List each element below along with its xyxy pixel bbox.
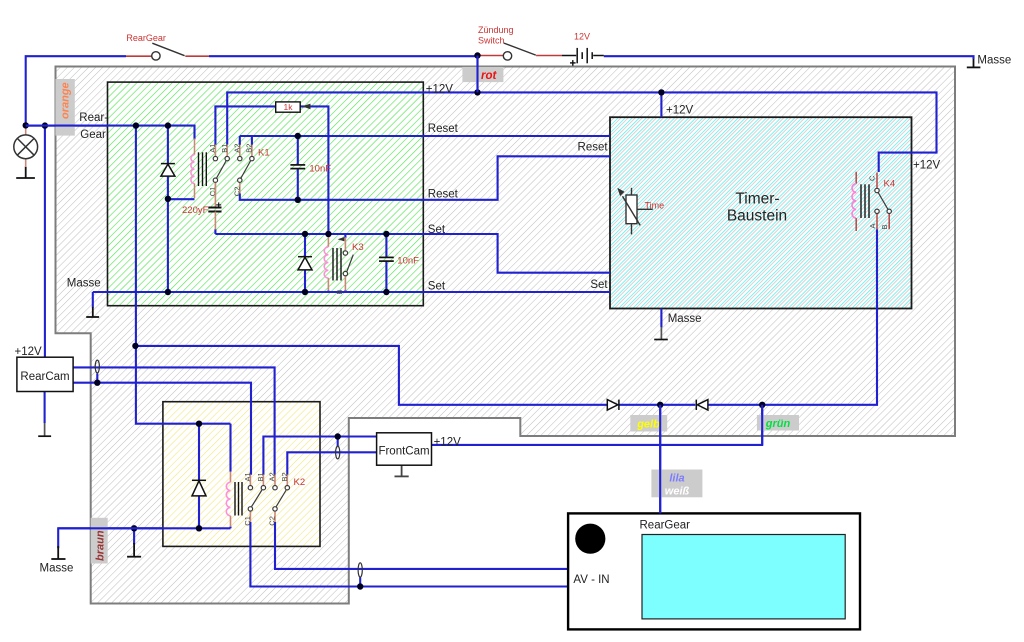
- node monitor lower wire hop: [357, 583, 363, 589]
- wire K2 C2 to monitor: [275, 522, 860, 569]
- svg-text:B2: B2: [280, 472, 289, 481]
- wire 10nF bottom cap legs: [385, 234, 387, 257]
- wire K1 diode bottom to coil bottom and Set rail: [167, 176, 169, 292]
- capacitor C220 (220yF electrolytic): [208, 183, 221, 230]
- ground stub under braun rail: [127, 543, 141, 557]
- wire Set2/Masse rail green box: [93, 291, 610, 293]
- wire 10nF top cap риser: [297, 136, 299, 165]
- capacitor C2 (10nF bottom): [379, 257, 394, 261]
- tag rot: [462, 67, 503, 82]
- svg-text:Masse: Masse: [977, 55, 1011, 67]
- block FrontCam: [377, 433, 432, 465]
- svg-text:weiß: weiß: [665, 486, 690, 498]
- svg-text:220yF: 220yF: [182, 205, 209, 216]
- wire over orange tag: [26, 125, 108, 127]
- relay K3 contact leads: [344, 237, 346, 290]
- wire K4 A contact drop inside timer: [876, 229, 878, 308]
- wire K3 coil top/bottom stubs: [327, 234, 329, 236]
- wire K2 coil vertical bottom segment: [229, 527, 231, 529]
- timer box (Timer-Baustein): [610, 117, 912, 308]
- wire hop stub FrontCam: [337, 437, 339, 447]
- wire hop stub RearCam: [96, 374, 98, 383]
- diode D2 (K2 flyback): [192, 480, 206, 496]
- ground Masse top right: [967, 59, 981, 67]
- wire red ignition to battery: [478, 55, 504, 57]
- relay K1 coil: [191, 139, 195, 199]
- svg-text:B1: B1: [220, 144, 229, 153]
- hop marker monitor pair: [358, 563, 362, 577]
- ground timer Masse: [654, 327, 668, 340]
- svg-text:A: A: [868, 223, 877, 228]
- node K2 diode top: [196, 421, 202, 427]
- wire K2 C1 to monitor: [250, 522, 860, 587]
- node ignition switch tap: [474, 52, 480, 58]
- svg-text:Masse: Masse: [67, 278, 101, 290]
- wire Set1 line to timer with step: [215, 234, 610, 273]
- svg-text:Set: Set: [590, 279, 608, 291]
- green relay box: [108, 82, 424, 306]
- svg-text:Rear-: Rear-: [79, 112, 108, 124]
- svg-text:Reset: Reset: [578, 142, 609, 154]
- svg-text:Reset: Reset: [428, 189, 459, 201]
- svg-text:+12V: +12V: [666, 105, 694, 117]
- relay K2 pin labels: [243, 472, 289, 525]
- svg-text:Zündung: Zündung: [478, 25, 514, 35]
- svg-text:+12V: +12V: [913, 160, 941, 172]
- svg-text:A1: A1: [208, 144, 217, 153]
- relay K3 contacts and blade: [343, 251, 353, 276]
- svg-text:FrontCam: FrontCam: [378, 446, 429, 458]
- relay K1 core: [199, 152, 207, 186]
- node 10nF bottom on Set1: [383, 231, 389, 237]
- relay K1 pin labels: [208, 144, 254, 197]
- wire long RearGear vertical to lower area: [136, 126, 231, 424]
- node +12V rail at timer: [658, 89, 664, 95]
- wire K1 A1 to 1k resistor: [215, 106, 275, 144]
- battery plus sign: [570, 60, 576, 66]
- svg-text:10nF: 10nF: [397, 256, 419, 267]
- svg-text:Timer-: Timer-: [735, 191, 779, 208]
- svg-text:+12V: +12V: [15, 346, 43, 358]
- svg-text:Set: Set: [428, 224, 446, 236]
- wire red RearGear switch right: [185, 55, 209, 57]
- svg-text:Gear: Gear: [80, 129, 106, 141]
- wire K2 B1 to FrontCam: [263, 437, 376, 475]
- node K3 diode on Set1: [302, 231, 308, 237]
- wire timer Masse drop: [660, 309, 662, 328]
- tag lila / weiss: [651, 470, 702, 498]
- svg-text:Masse: Masse: [40, 563, 74, 575]
- relay K2 contact leads: [250, 475, 287, 522]
- svg-text:12V: 12V: [574, 32, 590, 42]
- wire over rot tag: [476, 56, 478, 93]
- wire RearCam video out pair: [73, 367, 275, 474]
- ground lamp: [16, 167, 35, 179]
- node braun rail ground stub: [131, 525, 137, 531]
- relay K1 contacts and blades: [213, 156, 254, 182]
- node lamp top: [23, 122, 29, 128]
- svg-text:A2: A2: [268, 472, 277, 481]
- wire red RearGear switch left: [126, 55, 152, 57]
- node gelb: [657, 402, 663, 408]
- wire K1 B2 riser: [251, 136, 253, 145]
- svg-text:Switch: Switch: [478, 36, 505, 46]
- wire long link to right (gelb/gruen diode line): [135, 346, 607, 405]
- node K3 coil on Set1: [325, 231, 331, 237]
- svg-text:RearGear: RearGear: [640, 520, 691, 532]
- svg-text:B: B: [880, 224, 889, 229]
- wire K2 B2 to FrontCam: [287, 452, 376, 475]
- node RearCam feed tap: [42, 122, 48, 128]
- svg-text:K4: K4: [884, 179, 896, 190]
- block monitor: [568, 513, 860, 629]
- node K1 diode top: [165, 122, 171, 128]
- svg-text:K3: K3: [352, 242, 364, 253]
- svg-text:RearCam: RearCam: [20, 371, 69, 383]
- wire over braun tag: [58, 527, 163, 529]
- svg-text:AV - IN: AV - IN: [573, 574, 609, 586]
- svg-text:Baustein: Baustein: [727, 207, 787, 224]
- node 10nF bottom on Set2: [383, 289, 389, 295]
- diode D1 (K1 flyback): [161, 164, 175, 177]
- diode D4 (gelb, pointing right): [607, 400, 619, 410]
- svg-text:Reset: Reset: [428, 123, 459, 135]
- svg-text:+12V: +12V: [426, 84, 454, 96]
- node RearCam lower wire hop: [94, 380, 100, 386]
- relay K4 contact leads: [877, 173, 889, 230]
- relay K3 pin labels: [335, 237, 344, 295]
- resistor R1 (1k): [276, 102, 311, 112]
- svg-text:A2: A2: [232, 144, 241, 153]
- relay K4 coil: [852, 172, 856, 231]
- block RearCam: [17, 357, 73, 391]
- svg-text:gelb: gelb: [636, 419, 660, 431]
- switch Zündung (ignition): [503, 43, 536, 60]
- tag braun: [91, 518, 108, 564]
- svg-text:10nF: 10nF: [309, 164, 331, 175]
- node K2 diode bottom: [196, 525, 202, 531]
- wire K1 coil bottom link: [168, 198, 195, 200]
- wire K2 diode legs: [198, 424, 200, 480]
- battery 12V: [562, 48, 604, 63]
- node K1 diode bottom / coil return: [165, 196, 171, 202]
- svg-text:K1: K1: [258, 148, 270, 159]
- relay K1 contact leads: [215, 145, 252, 194]
- svg-text:C1: C1: [243, 516, 252, 526]
- wire gelb node down to monitor: [659, 405, 661, 514]
- svg-text:1k: 1k: [284, 102, 294, 112]
- svg-text:lila: lila: [669, 473, 684, 485]
- switch RearGear (top left): [152, 43, 185, 60]
- wire K3 diode legs: [304, 234, 306, 256]
- node link line tap: [132, 343, 138, 349]
- svg-text:C: C: [868, 175, 877, 181]
- wire 1k right to Set rail: [300, 106, 328, 234]
- wire timer +12V drop: [660, 92, 662, 117]
- wire RearGear node horizontal: [26, 126, 195, 140]
- wire over gelb and lila tags: [659, 405, 661, 514]
- relay K2 core: [235, 482, 242, 516]
- relay K4 pin labels: [868, 175, 889, 230]
- ground FrontCam: [395, 465, 409, 476]
- wire K1 A2 riser: [239, 136, 241, 145]
- svg-text:K2: K2: [294, 477, 306, 488]
- svg-text:B1: B1: [256, 472, 265, 481]
- wire Reset2 line C2 to timer with step: [240, 156, 610, 200]
- svg-text:Time: Time: [645, 201, 665, 211]
- wire top supply line from lamp to battery and Masse: [26, 56, 126, 125]
- node FrontCam upper input: [335, 433, 341, 439]
- wire K2 coil vertical top segment: [229, 424, 231, 472]
- svg-text:rot: rot: [481, 70, 498, 82]
- hop marker RearCam pair: [95, 360, 99, 373]
- svg-text:C2: C2: [268, 516, 277, 526]
- monitor camera lens: [575, 524, 605, 554]
- ground RearCam: [38, 423, 51, 436]
- wire +12V rail from relay K1 B1 to right side down to timer K4: [227, 92, 936, 172]
- svg-text:A1: A1: [243, 472, 252, 481]
- wire K3 contact A/B stubs: [344, 234, 346, 238]
- svg-text:C2: C2: [232, 187, 241, 197]
- svg-text:B2: B2: [245, 144, 254, 153]
- wire C1 electrolytic chain to Set1: [214, 229, 216, 234]
- wire Reset1 line to timer: [240, 135, 610, 137]
- wire RearCam 12V feed: [44, 126, 46, 358]
- yellow relay box: [163, 402, 320, 547]
- tag gelb: [630, 415, 667, 432]
- lamp L1: [14, 128, 38, 168]
- tag gruen: [757, 415, 799, 431]
- wire over gruen tag: [761, 405, 763, 445]
- wire braun Masse rail bottom: [58, 528, 230, 548]
- capacitor C1 (10nF top): [290, 165, 305, 169]
- node K3 diode on Set2: [302, 289, 308, 295]
- relay K4 contacts and blade: [875, 188, 892, 213]
- hop marker FrontCam pair: [336, 446, 340, 459]
- node K1 return on Set2: [165, 289, 171, 295]
- main hatched region outline: [56, 67, 956, 604]
- tag orange: [55, 79, 74, 136]
- ground Masse bottom left: [51, 546, 65, 559]
- svg-text:Masse: Masse: [668, 313, 702, 325]
- ground Masse green box left: [86, 307, 99, 317]
- svg-text:Set: Set: [428, 281, 446, 293]
- monitor screen: [642, 535, 845, 619]
- node RearGear main vertical tap: [133, 122, 139, 128]
- svg-text:braun: braun: [95, 530, 107, 561]
- svg-text:orange: orange: [60, 82, 72, 119]
- wire gruen node down to FrontCam supply: [432, 405, 763, 445]
- relay K3 coil: [324, 236, 328, 291]
- wire ground stub at braun rail: [133, 528, 135, 544]
- wire ignition switch dropdown to +12V rail: [476, 56, 478, 93]
- node gruen: [759, 402, 765, 408]
- wire Masse drop left of green box: [92, 292, 94, 308]
- svg-text:RearGear: RearGear: [126, 33, 166, 43]
- wire RearCam box grounding: [44, 392, 46, 424]
- node 10nF top on Reset1: [295, 133, 301, 139]
- svg-text:B: B: [335, 289, 344, 294]
- relay K2 coil: [226, 472, 230, 527]
- svg-text:grün: grün: [765, 418, 791, 430]
- relay K3 core: [333, 248, 341, 281]
- svg-text:+12V: +12V: [434, 437, 462, 449]
- diode D5 (gruen, pointing left): [696, 400, 708, 410]
- node +12V rail at rot: [474, 89, 480, 95]
- node 10nF top on Reset2: [295, 197, 301, 203]
- relay K4 core: [861, 184, 869, 218]
- wire K1 flyback diode top: [167, 126, 169, 164]
- wire hop stub monitor pair: [359, 578, 361, 587]
- potentiometer Time: [617, 188, 652, 235]
- diode D3 (K3): [298, 257, 312, 270]
- relay K2 contacts and blades: [248, 486, 289, 512]
